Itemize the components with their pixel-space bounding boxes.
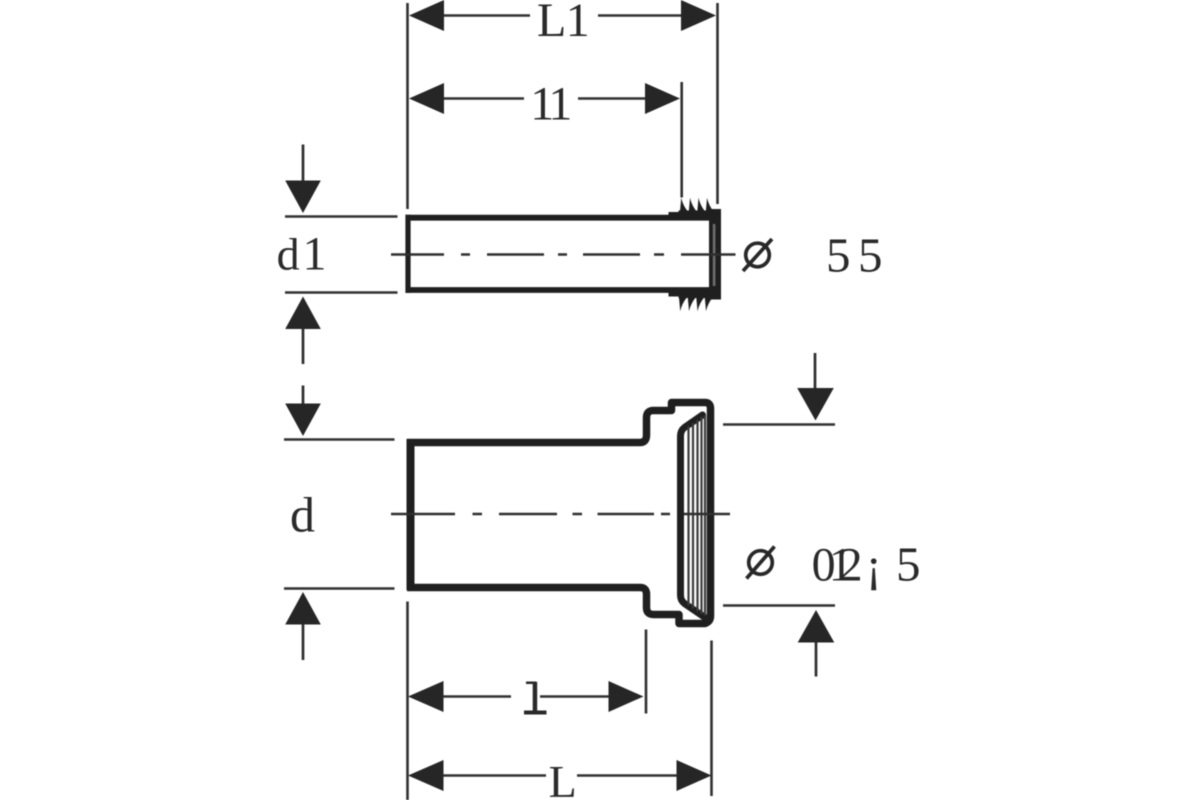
svg-text:1: 1 — [548, 78, 572, 131]
svg-text:1: 1 — [566, 0, 590, 47]
dimension d1 lower arrowhead — [285, 297, 321, 330]
pipe P2 body top edge — [407, 403, 711, 624]
dimension d1 lower arrow shaft — [302, 329, 305, 364]
pipe P1 bottom serration strip ledge — [669, 291, 681, 297]
svg-text:¡: ¡ — [866, 539, 882, 592]
dimension d lower arrow shaft — [302, 625, 305, 661]
dimension d lower arrowhead — [285, 592, 321, 625]
pipe P1 threaded end cap bar — [709, 209, 721, 300]
diameter symbol for 0125 — [747, 547, 775, 579]
dimension D2 upper arrow shaft — [814, 353, 817, 389]
dimension d upper arrow shaft — [302, 386, 305, 405]
pipe P2 socket hatch lines — [689, 416, 706, 616]
dimension D2 lower arrowhead — [798, 610, 835, 643]
bottom left extension line — [406, 602, 409, 800]
dimension D2 extension line top — [723, 423, 835, 426]
dimension d extension line top — [284, 438, 395, 441]
dimension D2 lower arrow shaft — [815, 643, 818, 677]
pipe P2 centerline — [391, 513, 730, 516]
svg-text:2: 2 — [839, 539, 863, 592]
dimension L arrowhead right — [677, 760, 712, 791]
pipe P1 left end edge — [405, 215, 410, 293]
svg-text:L: L — [549, 756, 577, 800]
svg-text:d: d — [290, 487, 315, 543]
dimension D2 upper arrowhead — [797, 388, 834, 421]
dimension L extension line right — [710, 641, 713, 797]
dimension L1 line right segment — [598, 14, 684, 17]
svg-text:5: 5 — [858, 228, 883, 283]
dimension d extension line bottom — [284, 587, 395, 590]
dimension l extension line right — [645, 630, 648, 714]
dimension L1 arrowhead right — [681, 0, 716, 31]
pipe P1 top serration strip ledge — [669, 212, 681, 218]
pipe P2 socket inner mouth — [681, 415, 706, 618]
dimension L line right segment — [577, 774, 678, 777]
svg-text:1: 1 — [303, 228, 327, 281]
pipe P1 centerline — [391, 253, 736, 256]
svg-text:d: d — [277, 229, 300, 280]
dimension l1 line left segment — [440, 97, 524, 100]
dimension L1 line left segment — [440, 14, 530, 17]
dimension d1 extension line top — [285, 215, 398, 218]
dimension L1 extension line left — [406, 3, 409, 209]
pipe P1 bottom serration teeth — [679, 294, 713, 311]
pipe P1 top serration strip — [679, 211, 722, 218]
dimension L1 arrowhead left — [409, 0, 444, 31]
dimension d1 upper arrowhead — [285, 181, 321, 214]
dimension D2 extension line bottom — [723, 604, 835, 607]
pipe P2 left end edge — [407, 439, 415, 590]
label l — [526, 682, 537, 685]
dimension l1 arrowhead right — [645, 83, 680, 114]
dimension L line left segment — [440, 774, 546, 777]
svg-text:5: 5 — [826, 228, 851, 283]
pipe P1 top serration teeth — [680, 198, 714, 215]
dimension l line left segment — [440, 695, 511, 698]
dimension l arrowhead left — [408, 681, 444, 712]
pipe P1 bottom serration strip — [679, 292, 722, 299]
dimension l1 line right segment — [578, 97, 648, 100]
dimension l1 extension line right — [680, 82, 683, 198]
dimension d upper arrowhead — [285, 404, 321, 437]
svg-text:5: 5 — [896, 537, 921, 592]
dimension L1 extension line right — [716, 3, 719, 204]
dimension d1 upper arrow shaft — [302, 145, 305, 183]
dimension L arrowhead left — [408, 760, 444, 791]
dimension l line right segment — [540, 695, 610, 698]
dimension d1 extension line bottom — [285, 291, 398, 294]
diameter symbol for 55 — [743, 239, 772, 271]
dimension l arrowhead right — [609, 681, 644, 712]
svg-text:L: L — [537, 0, 566, 47]
pipe P1 body bottom edge — [406, 287, 714, 293]
pipe P1 body top edge — [406, 215, 714, 221]
pipe P1 end cap highlight stripe — [713, 224, 716, 286]
dimension l1 arrowhead left — [409, 83, 444, 114]
